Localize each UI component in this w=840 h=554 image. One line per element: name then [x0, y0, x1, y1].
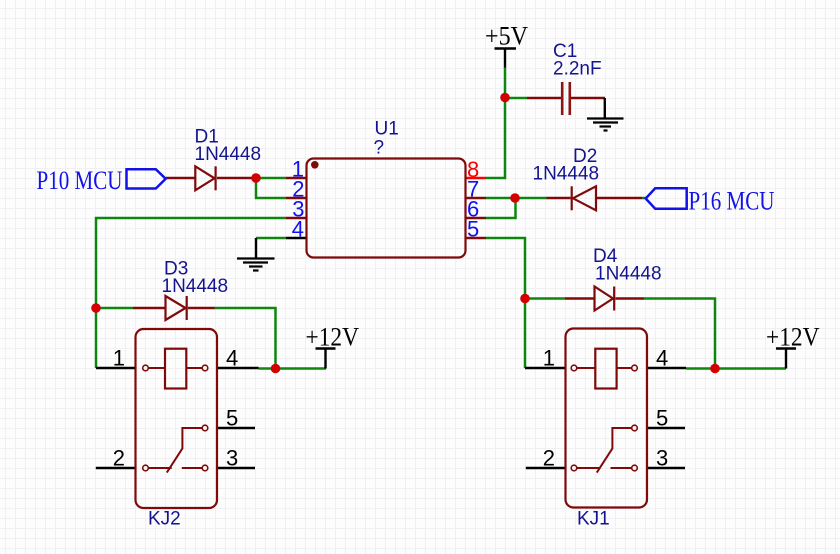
U1 pin 2 stub	[286, 197, 307, 200]
svg-text:KJ2: KJ2	[148, 509, 181, 530]
KJ2 pin 2 line	[96, 467, 136, 469]
wire U1 pin4 to ground elbow	[256, 237, 286, 240]
svg-text:KJ1: KJ1	[577, 509, 610, 530]
D2 cathode wire	[547, 197, 571, 200]
KJ1 coil	[595, 349, 616, 389]
op-amp U1 body	[307, 159, 466, 258]
KJ1 pin numbers	[543, 346, 669, 471]
D4 cathode wire	[616, 297, 645, 300]
diode D4	[595, 287, 615, 311]
junction D1/pin1/pin2	[251, 173, 261, 183]
KJ2 pin numbers	[113, 346, 239, 471]
wire D4 junction to D4 anode	[525, 297, 565, 300]
svg-text:5: 5	[467, 217, 479, 242]
diode D2	[572, 186, 596, 210]
svg-text:3: 3	[656, 446, 668, 471]
KJ1 pin 2 line	[526, 467, 566, 469]
svg-text:1: 1	[543, 346, 555, 371]
junction pin3/D3	[91, 303, 101, 313]
relay KJ2 body	[136, 329, 218, 508]
ground symbol below U1 pin4	[237, 259, 275, 271]
wire U1 pin6 up to D2 junction	[486, 198, 516, 218]
wire U1 pin3 left and down to D3 junction and KJ2 pin1	[96, 218, 286, 368]
C1 right lead	[571, 97, 605, 100]
D3 anode wire	[133, 307, 166, 310]
wire KJ2 pin4 to +12V	[259, 367, 327, 370]
port P10 MCU	[127, 169, 166, 188]
svg-text:4: 4	[292, 217, 304, 242]
junction +5V/C1	[500, 93, 510, 103]
KJ2 pin 5 line	[217, 427, 255, 429]
D2 anode wire	[596, 197, 642, 200]
U1 pin-1 indicator dot	[311, 161, 319, 169]
junction pin5/D4	[520, 294, 530, 304]
KJ1 pin 1 line	[525, 367, 566, 369]
D4 anode wire	[565, 297, 595, 300]
D1 cathode wire to junction	[217, 177, 256, 180]
KJ2 pin 1 line	[96, 367, 136, 369]
svg-text:1N4448: 1N4448	[533, 164, 600, 185]
KJ2 coil	[165, 349, 186, 389]
svg-text:P10 MCU: P10 MCU	[37, 166, 123, 195]
KJ1 switch lever	[597, 428, 632, 473]
KJ1 pin 4 line	[647, 367, 686, 369]
wire +5V stem to pin8 of U1 (vertical x=505)	[486, 68, 505, 179]
wire D4 cathode down to KJ1 pin4 junction	[644, 299, 715, 369]
U1 pin 1 stub	[286, 177, 307, 180]
KJ2 common lead	[148, 467, 171, 469]
wire D3 cathode down to KJ2 pin4 junction	[215, 308, 276, 369]
svg-text:+5V: +5V	[485, 22, 528, 51]
junction KJ2 pin4/+12V	[271, 364, 281, 374]
KJ2 switch lever	[167, 428, 202, 473]
svg-text:P16 MCU: P16 MCU	[689, 187, 775, 216]
port P16 MCU	[646, 188, 687, 208]
relay KJ1 body	[566, 329, 648, 508]
U1 pin numbers right	[467, 157, 479, 242]
diode D3	[166, 296, 187, 320]
wire D2 anode to port P16	[642, 197, 647, 200]
U1 pin 8 stub (red)	[466, 177, 486, 179]
wire U1 pin7 to D2 junction	[486, 197, 547, 200]
wire +5V junction to C1 left	[505, 97, 527, 100]
C1 ground stem	[604, 98, 606, 119]
wire D3 junction to D3 anode	[96, 307, 133, 310]
svg-text:2: 2	[543, 446, 555, 471]
KJ1 NO lead	[611, 467, 632, 469]
svg-text:+12V: +12V	[306, 323, 360, 352]
wire D1 junction to U1 pin1	[256, 177, 286, 180]
KJ1 common lead	[577, 467, 601, 469]
D1 anode wire	[166, 177, 195, 180]
svg-text:1N4448: 1N4448	[195, 144, 262, 165]
U1 pin 6 stub	[466, 217, 486, 220]
KJ2 pin 3 line	[217, 467, 255, 469]
ground symbol for C1	[587, 119, 624, 131]
U1 pin 7 stub	[466, 197, 486, 200]
U1 pin 4 stub (black)	[286, 237, 307, 239]
junction KJ1 pin4/+12V	[710, 364, 720, 374]
C1 left lead	[527, 97, 561, 100]
wire D1 junction down to U1 pin2	[256, 178, 286, 198]
svg-text:4: 4	[226, 346, 238, 371]
svg-text:+12V: +12V	[766, 323, 820, 352]
capacitor C1 plates	[562, 82, 570, 115]
svg-text:5: 5	[656, 406, 668, 431]
junction pin7/pin6/D2	[510, 193, 520, 203]
KJ1 pin 3 line	[647, 467, 685, 469]
svg-text:?: ?	[374, 138, 385, 159]
svg-text:2: 2	[113, 446, 125, 471]
U1 pin numbers left	[292, 157, 305, 242]
svg-text:3: 3	[226, 446, 238, 471]
svg-text:2.2nF: 2.2nF	[553, 59, 602, 80]
svg-text:1N4448: 1N4448	[162, 276, 229, 297]
KJ1 pin 5 line	[647, 427, 685, 429]
svg-text:1N4448: 1N4448	[595, 264, 662, 285]
+12V bar left	[316, 349, 336, 369]
U1 pin 3 stub	[286, 217, 307, 220]
KJ2 NO lead	[182, 467, 202, 469]
D3 cathode wire	[188, 307, 215, 310]
svg-text:U1: U1	[375, 119, 399, 140]
wire U1 pin5 down to D4 junction and KJ1 pin1	[486, 238, 525, 368]
ground wire elbow below U1 pin4	[255, 238, 257, 259]
KJ1 coil leads	[577, 367, 632, 369]
KJ1 contact rings	[571, 365, 637, 471]
U1 pin 5 stub	[466, 237, 486, 240]
KJ2 contact rings	[143, 365, 208, 471]
KJ2 pin 4 line	[217, 367, 259, 369]
svg-text:1: 1	[113, 346, 125, 371]
svg-text:5: 5	[226, 406, 238, 431]
KJ2 coil leads	[148, 367, 202, 369]
+12V bar right	[776, 349, 796, 369]
svg-text:4: 4	[656, 346, 668, 371]
diode D1	[195, 166, 215, 190]
+5V bar symbol	[495, 49, 517, 68]
wire KJ1 pin4 to +12V	[686, 367, 786, 370]
